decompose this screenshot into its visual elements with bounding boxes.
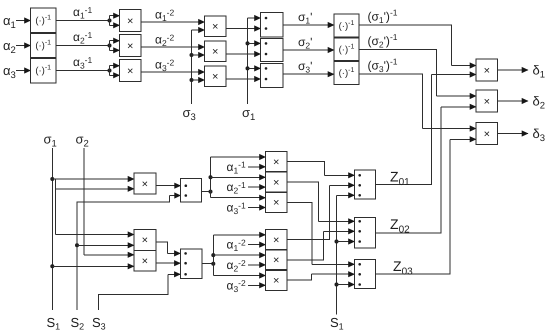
- node sigma2 label (mid-left): [76, 132, 89, 150]
- wire delta3 output: [498, 133, 529, 135]
- node Z01 label: [390, 169, 410, 189]
- wire Z01 riser to U6a: [376, 75, 477, 185]
- multiplier U6a: [476, 59, 498, 81]
- node S2 label: [71, 315, 85, 332]
- wire S1 riser into Z adders: [335, 195, 355, 314]
- node Z03 label: [393, 258, 413, 278]
- wire delta1 output: [498, 69, 529, 71]
- svg-text:×: ×: [127, 15, 133, 27]
- wire U10a to Z01 adder: [287, 162, 355, 176]
- wire alpha1^-2: [141, 21, 205, 23]
- multiplier U8b: [134, 250, 156, 271]
- adder U12a (three-dot block Z01): [355, 170, 376, 199]
- wire S2 riser into adder U7 and multiplier U8a: [75, 196, 181, 311]
- wire delta2 output: [498, 100, 529, 102]
- wire U10b to Z02 adder: [287, 182, 355, 221]
- wire alpha3^-2: [141, 71, 205, 73]
- wire (sigma1')^-1 to U6a: [359, 25, 476, 66]
- node sigma3prime label: [298, 59, 312, 75]
- node Z02 label: [390, 216, 410, 236]
- node sigma1prime label: [298, 10, 312, 26]
- node alpha1^-1 label: [73, 5, 93, 21]
- node alpha2^-2 label: [155, 32, 175, 48]
- wire sigma2 vertical into multiplier U8b: [84, 148, 134, 255]
- node alpha2^-2 stub label: [227, 258, 247, 274]
- adder U4b (two-dot block): [261, 39, 284, 62]
- multiplier U3b: [205, 41, 227, 62]
- svg-text:×: ×: [212, 46, 218, 58]
- wire alpha2^-2 stub: [248, 264, 266, 266]
- wire alpha2 input arrow: [16, 45, 31, 47]
- svg-text:×: ×: [273, 177, 279, 189]
- svg-text:×: ×: [273, 275, 279, 287]
- multiplier U7a: [134, 173, 156, 194]
- wire alpha2^-1 split into squarer: [56, 41, 120, 51]
- node alpha1^-2 stub label: [227, 238, 247, 254]
- svg-text:×: ×: [212, 71, 218, 83]
- svg-text:×: ×: [484, 65, 490, 77]
- multiplier stack U11 (x3): [266, 229, 288, 290]
- multiplier U6b: [476, 90, 498, 112]
- wire U9 sum fan into stack U11: [202, 235, 266, 276]
- svg-text:×: ×: [273, 234, 279, 246]
- wire alpha3^-1 split into squarer: [56, 66, 120, 76]
- node sigma3 label: [183, 105, 196, 123]
- wire alpha1 input arrow: [16, 20, 31, 22]
- wire alpha3^-1 stub: [248, 207, 266, 209]
- wire U10c to Z03 adder: [287, 202, 355, 264]
- wire alpha1^-1 stub: [248, 166, 266, 168]
- wire U11a to Z01 adder: [287, 185, 355, 239]
- wire alpha1^-2 stub: [248, 244, 266, 246]
- wire alpha1^-1 split into squarer: [56, 16, 120, 26]
- node alpha3^-2 label: [155, 57, 175, 73]
- svg-text:×: ×: [212, 21, 218, 33]
- svg-text:×: ×: [142, 255, 148, 267]
- node delta1 output label: [533, 63, 546, 81]
- wire Z02 riser to U6b: [376, 107, 477, 233]
- wire U7a product: [156, 185, 181, 187]
- adder U12b (three-dot block Z02): [355, 218, 376, 249]
- adder U12c (three-dot block Z03): [355, 260, 376, 289]
- wire sigma2prime: [283, 49, 334, 51]
- multiplier U3c: [205, 66, 227, 87]
- node alpha1^-1 stub label: [227, 160, 247, 176]
- multiplier U2a (squarer): [120, 10, 142, 32]
- multiplier U2c (squarer): [120, 60, 142, 82]
- wire U11b to Z02 adder: [287, 231, 355, 259]
- adder U4c (two-dot block): [261, 64, 284, 88]
- wire sigma1 branch to U7a input1: [52, 178, 134, 180]
- svg-text:σ3': σ3': [298, 59, 312, 75]
- wire sigma1prime: [283, 24, 334, 26]
- wire (sigma2')^-1 to U6b: [359, 50, 476, 96]
- wire alpha3^-2 stub: [248, 284, 266, 286]
- wire (sigma3')^-1 to U6c: [359, 74, 476, 129]
- wire U3a product: [226, 28, 261, 30]
- node delta3 output label: [533, 126, 546, 144]
- node S3 label: [92, 315, 106, 332]
- node alpha2^-1 label: [73, 30, 93, 46]
- svg-text:×: ×: [142, 235, 148, 247]
- wire S3 riser into adder U9: [99, 274, 181, 310]
- wire sigma1-S1 vertical bus (left): [50, 148, 54, 310]
- multiplier U3a: [205, 16, 227, 37]
- wire alpha3 input arrow: [16, 70, 31, 72]
- wire U7 sum fan into stack U10: [202, 157, 266, 198]
- svg-text:×: ×: [273, 157, 279, 169]
- node sigma1 label (top): [242, 105, 255, 123]
- wire sigma3prime: [283, 73, 334, 75]
- wire Z03 riser to U6c: [376, 139, 477, 274]
- node alpha2 input label: [3, 38, 16, 56]
- node (sigma3')^-1 label: [368, 56, 398, 74]
- wire sigma1 riser into adders U4: [246, 18, 261, 104]
- svg-text:×: ×: [273, 197, 279, 209]
- svg-text:×: ×: [484, 128, 490, 140]
- node alpha3 input label: [3, 63, 16, 81]
- node alpha3^-2 stub label: [227, 278, 247, 294]
- svg-text:×: ×: [127, 40, 133, 52]
- node alpha3^-1 label: [73, 55, 93, 71]
- wire U3c product: [226, 78, 261, 80]
- wire U11c to Z03 adder: [287, 274, 355, 280]
- adder U4a (two-dot block): [261, 13, 284, 38]
- node S1 label (bottom-left): [47, 315, 61, 332]
- multiplier U6c: [476, 123, 498, 145]
- svg-text:×: ×: [127, 65, 133, 77]
- wire U3b product: [226, 53, 261, 55]
- node S1 label (bottom-right): [330, 315, 344, 332]
- wire alpha2^-1 stub: [248, 186, 266, 188]
- node alpha2^-1 stub label: [227, 180, 247, 196]
- multiplier stack U10 (x3): [266, 152, 288, 213]
- svg-text:×: ×: [273, 255, 279, 267]
- wire sigma1 sub-branch to U7a input2 and U8a input1: [56, 179, 135, 235]
- adder U9 (three-dot block): [180, 249, 201, 279]
- node alpha3^-1 stub label: [227, 200, 247, 216]
- wire alpha2^-2: [141, 46, 205, 48]
- node alpha1 input label: [3, 13, 16, 31]
- svg-text:σ2': σ2': [298, 35, 312, 51]
- node (sigma2')^-1 label: [368, 32, 398, 50]
- svg-text:×: ×: [142, 178, 148, 190]
- wire U8b product: [156, 262, 181, 264]
- wire sigma3 riser into multipliers U3: [190, 30, 205, 104]
- svg-text:σ1': σ1': [298, 10, 312, 26]
- svg-text:×: ×: [484, 96, 490, 108]
- node sigma1 label (mid-left): [44, 132, 57, 150]
- wire U8a product: [156, 242, 181, 253]
- multiplier U8a: [134, 229, 156, 250]
- inverter stack U5 ((.)^-1 x3): [334, 14, 359, 85]
- adder U7 (two-dot block): [181, 179, 202, 202]
- wire sigma1 branch to U8b input2: [52, 265, 134, 267]
- node delta2 output label: [533, 94, 546, 112]
- inverter stack U1 ((.)^-1 x3): [31, 8, 57, 83]
- node sigma2prime label: [298, 35, 312, 51]
- node (sigma1')^-1 label: [368, 7, 398, 25]
- multiplier U2b (squarer): [120, 35, 142, 57]
- node alpha1^-2 label: [155, 7, 175, 23]
